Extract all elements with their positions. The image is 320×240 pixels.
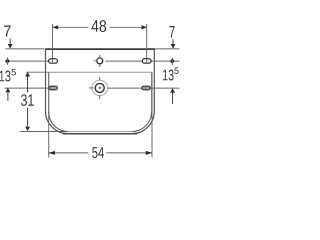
basin outer contour	[46, 49, 155, 134]
basin inner bowl contour	[49, 72, 152, 131]
label 13^5 left	[0, 71, 11, 82]
basin back edge	[45, 48, 155, 50]
dimension 7 right arrow	[172, 39, 174, 44]
drain center dot	[99, 87, 101, 89]
back edge extension line left	[6, 48, 45, 50]
dimension 7 left arrow	[9, 38, 11, 44]
extension line 48 left	[52, 24, 54, 59]
tap hole circle	[97, 58, 103, 64]
label 13^5 right	[163, 70, 174, 81]
dimension 54 line left segment with arrow	[49, 152, 89, 154]
label 31	[21, 94, 34, 106]
dimension 31 top arrow	[25, 72, 30, 77]
lower hole line right (drain to right margin)	[107, 87, 179, 89]
extension line 54 right	[151, 72, 153, 157]
dimension 13.5 right up arrow	[170, 88, 175, 93]
fixing hole capsule upper left	[49, 59, 58, 64]
inner bowl corner arcs (darker)	[49, 112, 68, 132]
fixing hole capsule lower right	[142, 86, 151, 90]
dimension 48 line left segment with arrow	[53, 26, 89, 28]
dimension 13.5 left up arrow	[6, 88, 11, 93]
dot terminator left	[5, 58, 10, 64]
label 7 right	[169, 26, 174, 38]
label 54	[92, 147, 104, 158]
upper hole line right (tap to right margin)	[106, 60, 180, 62]
drain outer circle	[92, 80, 108, 96]
dimension 54 line right segment with arrow	[106, 152, 152, 154]
tap hole crosshair ticks	[99, 55, 101, 57]
upper hole line left (dot to basin)	[5, 60, 48, 62]
extension line 54 left (inner side line continued)	[48, 72, 50, 157]
inner front line extension left (31 bottom extension)	[20, 131, 68, 133]
drain inner circle	[95, 83, 104, 92]
lower hole line left	[5, 87, 49, 89]
fixing hole capsule lower left	[49, 86, 58, 90]
drain crosshair ticks	[99, 77, 101, 81]
basin front edge	[63, 133, 137, 135]
extension line 48 right	[146, 24, 148, 59]
fixing hole capsule upper right	[142, 59, 151, 64]
extension through capsule right	[146, 59, 148, 64]
label 48	[91, 20, 106, 32]
dimension 31 bottom arrow	[27, 108, 29, 127]
inner back line extension left (31 top extension)	[26, 71, 48, 73]
back edge extension line right	[155, 48, 180, 50]
dot terminator right	[170, 58, 175, 64]
dimension 48 line right segment with arrow	[110, 26, 147, 28]
label 7 left	[4, 26, 11, 37]
extension through capsule left	[52, 59, 54, 64]
